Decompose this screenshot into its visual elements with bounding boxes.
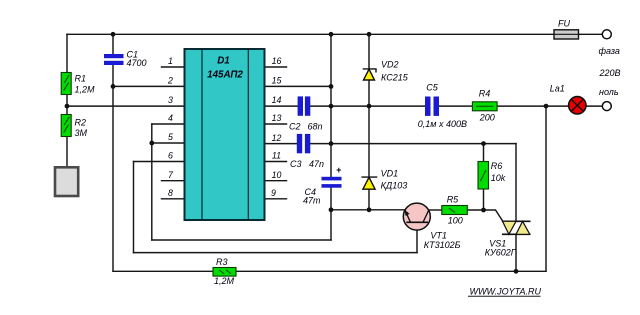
svg-text:R3: R3 [216, 257, 228, 267]
svg-text:C3: C3 [290, 159, 302, 169]
svg-text:La1: La1 [550, 84, 565, 94]
svg-text:КУ602Г: КУ602Г [485, 247, 517, 257]
svg-text:8: 8 [168, 188, 173, 198]
svg-text:R4: R4 [479, 89, 491, 99]
svg-text:фаза: фаза [599, 46, 620, 56]
svg-text:15: 15 [272, 76, 282, 86]
svg-text:145АП2: 145АП2 [207, 70, 243, 81]
svg-text:12: 12 [272, 133, 282, 143]
svg-text:1,2М: 1,2М [214, 276, 235, 286]
svg-text:5: 5 [168, 132, 173, 142]
svg-text:VD1: VD1 [381, 169, 399, 179]
svg-text:16: 16 [272, 56, 282, 66]
svg-text:0,1м x 400В: 0,1м x 400В [418, 119, 467, 129]
svg-text:6: 6 [168, 151, 173, 161]
svg-text:47n: 47n [309, 159, 324, 169]
svg-text:WWW.JOYTA.RU: WWW.JOYTA.RU [470, 286, 542, 296]
svg-text:13: 13 [272, 113, 282, 123]
svg-text:220В: 220В [599, 68, 621, 78]
svg-text:R5: R5 [447, 195, 459, 205]
svg-text:4: 4 [168, 113, 173, 123]
svg-text:R6: R6 [491, 161, 503, 171]
svg-text:C2: C2 [289, 122, 301, 132]
svg-text:10: 10 [272, 170, 282, 180]
svg-text:200: 200 [479, 113, 495, 123]
svg-text:100: 100 [448, 216, 463, 226]
svg-text:68n: 68n [308, 122, 323, 132]
svg-text:10k: 10k [491, 173, 506, 183]
svg-text:FU: FU [558, 19, 570, 29]
svg-text:3М: 3М [75, 128, 88, 138]
svg-text:КТ3102Б: КТ3102Б [424, 240, 461, 250]
svg-text:D1: D1 [217, 56, 230, 67]
svg-text:1: 1 [168, 56, 173, 66]
svg-text:КД103: КД103 [381, 181, 408, 191]
svg-text:VD2: VD2 [381, 60, 399, 70]
svg-text:4700: 4700 [127, 58, 147, 68]
svg-text:2: 2 [167, 76, 173, 86]
svg-text:9: 9 [271, 188, 276, 198]
svg-text:1,2М: 1,2М [75, 85, 96, 95]
svg-text:47m: 47m [303, 196, 321, 206]
svg-text:КС215: КС215 [381, 73, 409, 83]
svg-text:+: + [336, 165, 342, 175]
svg-text:3: 3 [168, 95, 173, 105]
svg-text:11: 11 [272, 151, 281, 161]
svg-text:14: 14 [272, 95, 282, 105]
svg-text:C5: C5 [426, 83, 438, 93]
svg-text:R1: R1 [75, 74, 87, 84]
svg-text:ноль: ноль [599, 87, 619, 97]
svg-text:R2: R2 [75, 118, 87, 128]
